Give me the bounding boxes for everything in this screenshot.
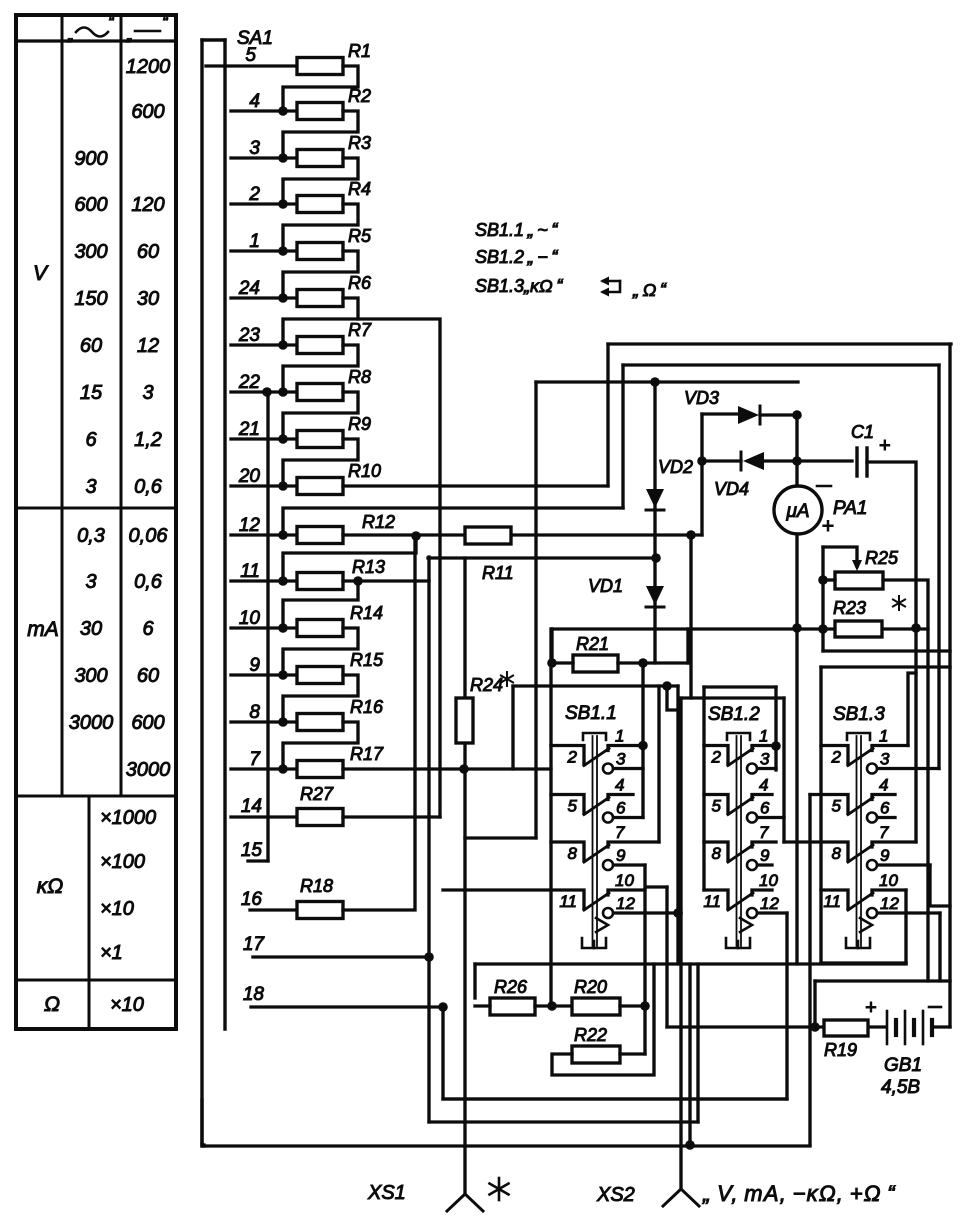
svg-text:×10: ×10	[110, 994, 144, 1016]
svg-text:8: 8	[712, 844, 722, 863]
svg-text:600: 600	[74, 194, 107, 216]
wire R21 left	[552, 661, 573, 664]
wire SB1.3 pin1 riser	[908, 673, 916, 746]
svg-text:SB1.3: SB1.3	[833, 704, 885, 725]
resistor R18	[297, 902, 343, 919]
switch SB1.2 spring	[740, 918, 752, 932]
wire pin 21 stub	[231, 437, 297, 440]
minus GB1	[929, 1006, 941, 1009]
wire R16 wrap	[283, 722, 358, 769]
svg-text:V: V	[33, 262, 49, 285]
svg-text:SB1.2 „ − “: SB1.2 „ − “	[475, 247, 558, 267]
switch SB1.2 section 3 contact circle	[747, 860, 757, 870]
switch SB1.1 section 4 top pin wire	[608, 890, 645, 895]
svg-text:SB1.3„κΩ “: SB1.3„κΩ “	[475, 276, 563, 296]
svg-text:6: 6	[880, 799, 890, 818]
table mA/kOhm divider	[16, 795, 176, 798]
svg-text:R14: R14	[350, 603, 383, 623]
wire SB1.2 x776	[774, 687, 777, 770]
svg-text:XS1: XS1	[367, 1182, 406, 1204]
switch SB1.3 shaft bottom cap	[846, 938, 870, 948]
wire SB1.1 top rail	[513, 684, 678, 687]
wire R23 row	[552, 627, 928, 630]
switch SB1.1 section 4 contact circle	[603, 908, 613, 918]
switch SB1.3 section 1 circle wire	[878, 767, 940, 770]
svg-text:9: 9	[760, 846, 770, 865]
node pin 10	[278, 623, 288, 633]
wire R21 riser	[686, 629, 689, 663]
node PA1 bottom	[792, 623, 802, 633]
resistor R24	[456, 698, 473, 743]
switch SB1.2 section 2 moving contact	[728, 798, 753, 815]
svg-text:6: 6	[85, 429, 97, 451]
resistor R15	[297, 667, 343, 684]
wire loop1 left vertical	[606, 344, 609, 486]
svg-text:150: 150	[74, 288, 107, 310]
diode VD3	[738, 406, 759, 424]
wire R19 row	[667, 1025, 824, 1028]
wire SB1.3 pin10 riser	[904, 890, 907, 963]
svg-text:„: „	[126, 25, 133, 44]
svg-text:R19: R19	[824, 1040, 857, 1060]
svg-text:300: 300	[74, 241, 107, 263]
svg-text:7: 7	[249, 749, 261, 770]
svg-text:VD4: VD4	[714, 479, 749, 499]
node SB1.1 rail	[662, 681, 672, 691]
switch SB1.1 section 2 circle wire	[614, 816, 644, 819]
switch SB1.2 section 1 moving contact	[728, 749, 753, 766]
svg-text:900: 900	[74, 148, 107, 170]
svg-text:+: +	[865, 997, 877, 1019]
svg-text:R2: R2	[348, 86, 371, 106]
svg-text:7: 7	[879, 823, 889, 842]
wire pin 15 stub	[248, 859, 268, 862]
svg-text:16: 16	[241, 889, 263, 910]
wire pin 5 from SA1 bus	[206, 64, 297, 67]
switch SB1.1 shaft	[592, 736, 594, 946]
switch SB1.3 shaft	[856, 736, 858, 946]
node pin 12	[278, 530, 288, 540]
resistor R5	[297, 243, 343, 260]
wire C1 row	[797, 459, 852, 462]
svg-text:mA: mA	[27, 618, 59, 641]
switch SA1 bus	[200, 40, 203, 1144]
wire R6 branch to long vertical	[358, 319, 440, 817]
switch SB1.3 section 3 top pin wire	[872, 842, 916, 847]
svg-text:×100: ×100	[100, 851, 145, 873]
wire pin 2 stub	[231, 202, 297, 205]
wire pin 16 stub	[250, 908, 297, 911]
svg-text:×1000: ×1000	[100, 807, 156, 829]
svg-text:SB1.2: SB1.2	[708, 704, 760, 725]
switch SB1.3 section 1 contact circle	[867, 764, 877, 774]
wire R5 wrap	[283, 251, 358, 298]
resistor R12	[297, 527, 343, 544]
switch SB1.2 section 3 top pin wire	[752, 842, 776, 847]
wire R10 to detour	[343, 484, 608, 487]
switch SB1.2 shaft	[736, 736, 738, 946]
svg-text:VD2: VD2	[658, 457, 693, 477]
wire PA1 vertical top	[795, 415, 798, 486]
wire 18-row vertical	[443, 1007, 787, 1099]
node R20 left	[547, 1001, 557, 1011]
svg-text:5: 5	[245, 45, 256, 66]
switch SB1.2 section 3 moving contact	[728, 845, 753, 862]
switch SB1.3 section 4 top pin wire	[872, 890, 906, 895]
resistor R26	[490, 998, 535, 1015]
svg-text:30: 30	[137, 288, 159, 310]
connector XS1	[447, 1194, 465, 1211]
node pin 4	[278, 106, 288, 116]
svg-text:15: 15	[80, 382, 103, 404]
svg-text:7: 7	[759, 823, 769, 842]
switch SB1.3 section 2 circle wire	[878, 816, 896, 819]
node R23 C1 junction	[911, 623, 921, 633]
table header row line	[16, 39, 176, 42]
svg-text:R12: R12	[362, 512, 395, 532]
wire vertical from R13 row	[427, 557, 430, 1122]
wire pin 24 stub	[231, 296, 297, 299]
svg-text:11: 11	[240, 561, 260, 582]
svg-text:2: 2	[567, 748, 578, 767]
switch SB1.2 section 3 left contact	[704, 842, 728, 861]
svg-text:1,2: 1,2	[134, 429, 162, 451]
svg-text:11: 11	[823, 892, 841, 911]
wire rail 1145	[202, 1144, 810, 1146]
wire x815 drop	[813, 981, 816, 1027]
switch SB1.2 section 1 top pin wire	[752, 746, 776, 751]
switch SB1.1 section 2 moving contact	[584, 798, 609, 815]
switch SB1.2 section 1 left contact	[704, 746, 728, 765]
svg-text:R23: R23	[833, 598, 866, 618]
wire pin 10 stub	[231, 626, 297, 629]
node pin 21	[278, 434, 288, 444]
svg-text:1: 1	[759, 727, 768, 746]
svg-text:60: 60	[137, 241, 159, 263]
switch SB1.1 section 1 left contact	[551, 746, 584, 765]
svg-text:„ Ω “: „ Ω “	[632, 280, 667, 300]
switch SB1.3 section 4 moving contact	[848, 893, 873, 910]
svg-text:VD1: VD1	[588, 576, 623, 596]
wire R7 wrap	[283, 345, 358, 392]
node pin 9	[278, 670, 288, 680]
svg-text:10: 10	[879, 871, 898, 890]
resistor R17	[297, 761, 343, 778]
svg-text:R17: R17	[350, 744, 384, 764]
svg-text:5: 5	[832, 797, 842, 816]
switch SB1.1 section 3 top pin wire	[608, 842, 659, 847]
switch SB1.2 section 3 circle wire	[758, 863, 773, 866]
svg-text:×1: ×1	[100, 942, 123, 964]
svg-text:4: 4	[615, 776, 624, 795]
node R13 junction	[353, 576, 363, 586]
wire R25 left	[823, 578, 835, 581]
node pin 11	[278, 576, 288, 586]
resistor R3	[297, 150, 343, 167]
wire SB1.3 left B vertical	[808, 795, 811, 1146]
svg-text:30: 30	[80, 618, 102, 640]
node SB1.1 pin12 junction	[673, 908, 683, 918]
wire bottom rail 964	[475, 962, 906, 965]
switch SB1.2 section 4 contact circle	[747, 908, 757, 918]
wire R26 left	[475, 1004, 490, 1007]
wire VD3/VD4 left vertical	[700, 414, 703, 535]
svg-text:R26: R26	[494, 977, 528, 997]
resistor R27	[297, 809, 343, 826]
svg-text:17: 17	[243, 934, 266, 955]
wire pin 11 stub	[231, 579, 297, 582]
svg-text:„: „	[67, 25, 74, 44]
svg-text:15: 15	[241, 840, 263, 861]
node VD link	[651, 553, 661, 563]
switch SB1.2 section 1 circle wire	[758, 767, 777, 770]
svg-text:0,6: 0,6	[134, 476, 163, 498]
wire pin 12 stub	[231, 533, 297, 536]
resistor R2	[297, 103, 343, 120]
wire R8 wrap	[283, 392, 358, 439]
wire R12 wrap to pin 11	[283, 536, 416, 581]
node pin 3	[278, 153, 288, 163]
minus PA1	[817, 485, 831, 488]
wire SB1.1 pin10 drop	[643, 890, 646, 1054]
wire R13 wrap to pin 10	[283, 581, 358, 628]
svg-text:R3: R3	[348, 133, 371, 153]
node loop3 junction	[650, 377, 660, 387]
switch SB1.3 section 2 left contact	[810, 795, 848, 814]
wire R25 right	[883, 580, 928, 981]
node pin 1	[278, 246, 288, 256]
wire rail 1122 left	[202, 1145, 205, 1146]
wire rail 981	[815, 979, 950, 982]
switch SB1.3 section 3 moving contact	[848, 845, 873, 862]
wire pin 23 stub	[231, 343, 297, 346]
wire SB1.1 x643 vertical	[641, 663, 644, 818]
node SB1.1 pin1	[638, 741, 648, 751]
switch SB1.3 section 4 left contact	[821, 890, 848, 909]
switch SB1.2 section 4 top pin wire	[752, 890, 772, 895]
switch SB1.3 section 2 contact circle	[867, 813, 877, 823]
resistor R6	[297, 290, 343, 307]
svg-text:3: 3	[760, 750, 770, 769]
wire R9 wrap	[283, 439, 358, 486]
diode VD1	[646, 586, 664, 605]
resistor R14	[297, 620, 343, 637]
switch SB1.1 section 2 contact circle	[603, 813, 613, 823]
svg-text:R6: R6	[348, 273, 372, 293]
node R25 left	[818, 575, 828, 585]
wire R23 row left corner	[550, 629, 553, 663]
wire SB1.3 circle9 path	[930, 865, 950, 906]
svg-text:R8: R8	[348, 367, 371, 387]
svg-text:1: 1	[249, 231, 260, 252]
svg-text:2: 2	[248, 184, 260, 205]
svg-text:8: 8	[568, 844, 578, 863]
svg-text:5: 5	[712, 797, 722, 816]
meter PA1	[774, 486, 822, 534]
switch SB1.1 section 4 circle wire	[614, 911, 682, 914]
resistor R20	[572, 998, 620, 1015]
wire 558 link	[428, 556, 656, 559]
wire pin 4 stub	[231, 109, 297, 112]
svg-text:XS2: XS2	[596, 1184, 635, 1206]
svg-text:Ω: Ω	[44, 993, 60, 1016]
wire x698 riser	[696, 964, 699, 1122]
wire pin 3 stub	[231, 156, 297, 159]
svg-text:12: 12	[616, 894, 635, 913]
resistor R22	[572, 1046, 620, 1063]
node R21 right	[638, 658, 648, 668]
svg-text:R5: R5	[348, 226, 372, 246]
svg-text:10: 10	[759, 871, 778, 890]
svg-text:10: 10	[239, 608, 261, 629]
svg-text:0,06: 0,06	[129, 525, 169, 547]
resistor R8	[297, 384, 343, 401]
table kOhm/Ohm divider	[16, 979, 176, 982]
svg-text:3: 3	[616, 750, 626, 769]
wire loop3 left vertical	[534, 382, 537, 838]
switch SB1.1 section 1 moving contact	[584, 749, 609, 766]
svg-text:4,5B: 4,5B	[881, 1077, 920, 1098]
wire x691 from R12 to rail	[689, 535, 692, 698]
svg-text:10: 10	[615, 871, 634, 890]
wire C1 right	[867, 462, 916, 842]
wire pin 1 stub	[231, 249, 297, 252]
resistor R7	[297, 337, 343, 354]
wire R17 riser to SB rail	[511, 686, 514, 769]
wire SB1.3 circle12 drop	[938, 913, 941, 981]
svg-text:14: 14	[241, 796, 262, 817]
svg-text:GB1: GB1	[884, 1055, 922, 1076]
svg-text:22: 22	[238, 372, 261, 393]
wire SB1.2 top rail	[704, 685, 776, 688]
wire PA1 vertical bottom	[795, 534, 798, 628]
wire SB1.2 circle12 riser	[785, 913, 788, 1099]
switch SB1.2 section 2 circle wire	[758, 816, 785, 819]
svg-text:20: 20	[238, 466, 261, 487]
svg-text:4: 4	[879, 776, 888, 795]
svg-text:7: 7	[615, 823, 625, 842]
svg-text:2: 2	[831, 748, 842, 767]
svg-text:3: 3	[85, 476, 96, 498]
svg-text:„ V, mA, −κΩ, +Ω “: „ V, mA, −κΩ, +Ω “	[702, 1181, 896, 1206]
wire R25 vertical	[821, 547, 824, 651]
wire R24/XS1 main vertical	[463, 558, 466, 1194]
switch SB1.1 section 1 circle wire	[614, 767, 644, 770]
switch SB1.2 section 2 top pin wire	[752, 795, 772, 800]
svg-text:R25: R25	[865, 548, 899, 568]
wire SB1.1 x667 to R19	[665, 887, 668, 1027]
switch SB1.1 section 3 contact circle	[603, 860, 613, 870]
node R20 right	[640, 1001, 650, 1011]
wire R17 long right	[343, 767, 551, 770]
switch SB1.1 spring	[596, 918, 608, 932]
resistor R10	[297, 478, 343, 495]
svg-text:R20: R20	[574, 977, 607, 997]
svg-text:18: 18	[243, 984, 265, 1005]
svg-text:1: 1	[879, 727, 888, 746]
svg-text:9: 9	[249, 655, 260, 676]
switch SB1.2 section 4 left contact	[704, 890, 728, 909]
wire R27 right	[343, 815, 440, 818]
wire pin 8 stub	[231, 720, 297, 723]
svg-text:11: 11	[703, 892, 721, 911]
svg-text:6: 6	[142, 618, 154, 640]
svg-text:SB1.1: SB1.1	[565, 703, 617, 724]
table frame	[16, 15, 176, 1029]
node R12-R18 junction	[411, 531, 421, 541]
switch SB1.3 section 2 moving contact	[848, 798, 873, 815]
switch SB1.2 section 2 left contact	[704, 795, 728, 814]
svg-text:R24: R24	[470, 675, 503, 695]
switch SB1.1 shaft top cap	[583, 733, 606, 740]
switch SB1.1 section 3 left contact	[551, 842, 584, 861]
node XS2 junction	[685, 1140, 695, 1150]
wire SB1.2 x784	[782, 698, 785, 842]
svg-text:4: 4	[759, 776, 768, 795]
svg-text:×10: ×10	[100, 898, 134, 920]
wire VD2-VD1 vertical	[653, 382, 656, 663]
node VD4 junction	[792, 456, 802, 466]
switch SB1.2 section 4 circle wire	[758, 911, 788, 914]
node pin 2	[278, 199, 288, 209]
wire rail 1098	[443, 1097, 786, 1100]
wire pin 18	[251, 1005, 443, 1008]
switch SB1.3 section 3 circle wire	[878, 863, 931, 866]
wire R14 wrap	[283, 628, 358, 675]
wire outer loop 1 top	[608, 342, 951, 345]
wire SB1.3 top rail	[821, 665, 950, 668]
resistor R4	[297, 196, 343, 213]
wire outer loop 2 top	[623, 363, 939, 366]
node R23 left	[818, 624, 828, 634]
wire R22 right	[620, 1052, 645, 1055]
node pin 20	[278, 481, 288, 491]
svg-text:21: 21	[238, 419, 260, 440]
wire R1 wrap to pin 4	[283, 66, 358, 111]
svg-text:3: 3	[142, 382, 153, 404]
node pin 17 junction	[424, 952, 434, 962]
switch SB1.2 section 2 contact circle	[747, 813, 757, 823]
svg-text:R22: R22	[574, 1025, 607, 1045]
svg-text:3: 3	[249, 138, 260, 159]
svg-text:PA1: PA1	[833, 498, 868, 519]
svg-text:3000: 3000	[126, 759, 171, 781]
wire pin 17	[253, 955, 429, 958]
wire loop1 bottom rail	[823, 649, 950, 652]
wire R6 wrap	[283, 298, 358, 345]
svg-text:12: 12	[760, 894, 779, 913]
wire pin 9 stub	[231, 673, 297, 676]
table kOhm column divider	[88, 796, 91, 1029]
resistor R11	[465, 527, 511, 544]
switch SB1.3 section 3 left contact	[784, 842, 848, 861]
node pin 22	[278, 387, 288, 397]
svg-text:R15: R15	[350, 650, 384, 670]
svg-text:R16: R16	[350, 697, 384, 717]
svg-text:R10: R10	[348, 461, 381, 481]
wire VD4 row	[702, 459, 741, 462]
wire SB1.1 x678 vertical	[676, 686, 679, 964]
capacitor C1	[855, 448, 858, 476]
star XS1	[498, 1178, 501, 1200]
svg-text:R4: R4	[348, 179, 371, 199]
wire R4 wrap	[283, 204, 358, 251]
resistor R16	[297, 714, 343, 731]
switch SB1.2 shaft top cap	[727, 733, 750, 740]
svg-text:60: 60	[80, 335, 102, 357]
node pin 18 junction	[438, 1002, 448, 1012]
wire pin 22 stub	[231, 390, 297, 393]
